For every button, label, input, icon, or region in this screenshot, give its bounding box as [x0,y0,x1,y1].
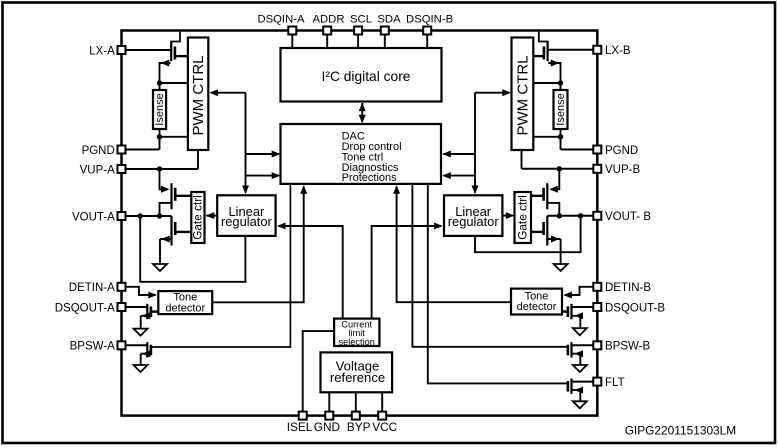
wire Q7 source from VUP-B node [551,169,559,190]
wire Q1 gate to PWM CTRL A [175,55,188,57]
wire control net B to DAC upper (arrow) [444,153,476,155]
svg-text:LX-B: LX-B [605,45,631,57]
wire VUP-B rail [522,168,594,170]
transistor Q10 (BPSW-B) [570,342,572,357]
block U9 Linear regulator (channel B) [444,195,502,236]
wire junction to PWM CTRL A [160,136,188,138]
wire PWM CTRL A bottom stub to VUP-A rail [197,150,199,169]
wire Tone detector B output to DAC (arrow) [397,186,511,302]
wire Isense-A node to PWM CTRL A [160,82,188,84]
node VUP-A junction [157,166,162,171]
pin DSQOUT-A [118,303,126,311]
wire Q4 source to ground [160,239,172,264]
wire control net B to Linear regulator B top (arrow) [474,176,476,193]
wire Q2 drain to top rail [539,32,548,42]
pin VUP-A [118,165,126,173]
svg-text:DSQIN-A: DSQIN-A [257,13,305,25]
wire Q10 source to ground [572,354,581,365]
svg-text:BPSW-A: BPSW-A [70,341,115,353]
block U8 Voltage reference [321,352,393,392]
block U7 Current limit selection [334,319,379,346]
pin PGND [593,146,601,154]
pin DSQIN-B [423,27,431,35]
svg-text:SCL: SCL [350,13,372,25]
node Isense-B bottom junction [558,134,563,139]
block U1 I2C digital core [281,48,442,102]
svg-text:VOUT- B: VOUT- B [605,211,651,223]
wire ISEL to Current limit selection [303,331,334,411]
pin VOUT-A [118,212,126,220]
wire Q6 source to ground [141,354,148,365]
svg-text:ISEL: ISEL [287,420,313,434]
block U3 PWM CTRL (channel A) [188,38,208,151]
svg-text:Gate ctrl: Gate ctrl [191,195,205,240]
block U6 Tone detector (channel A) [158,291,212,314]
wire control net A to DAC upper (arrow) [246,153,280,155]
svg-text:LX-A: LX-A [89,45,115,57]
node VUP-B junction [557,166,562,171]
wire DETIN-A to Tone detector A (arrow) [126,287,156,295]
wire Q9 source to ground [572,316,581,328]
wire VCC pin to Voltage reference [381,392,383,411]
transistor Q11 (FLT) [570,379,572,394]
svg-text:I²C digital core: I²C digital core [322,69,411,84]
svg-text:detector: detector [517,301,557,313]
svg-text:DSQOUT-A: DSQOUT-A [55,302,115,314]
wire Q2 source to Isense B node [548,63,560,83]
wire VOUT-A feedback to Linear regulator A [140,216,245,282]
wire I2C core to DAC (bidirectional) [361,103,363,122]
svg-text:PWM CTRL: PWM CTRL [515,56,532,136]
block Isense (channel B) [554,90,568,129]
wire FLT pin to Q11 [572,381,594,383]
wire control net B vertical [474,93,476,176]
block Gate ctrl (channel A) [191,192,204,243]
svg-text:FLT: FLT [605,377,625,389]
wire Isense A bottom to junction [159,129,161,137]
transistor Q5 (DSQOUT-A) [146,304,148,319]
wire Linear regulator B to Gate ctrl B (arrow) [502,215,513,217]
wire Q4 gate to Gate ctrl A [175,231,191,233]
wire Linear regulator A to Gate ctrl A (arrow) [206,215,217,217]
transistor Q9 (DSQOUT-B) [570,304,572,319]
wire Q3 drain to VOUT-A node [160,203,172,216]
wire Q8 source to ground [547,239,560,264]
svg-text:regulator: regulator [221,214,273,229]
svg-text:VUP-A: VUP-A [80,164,115,176]
IC chip outline [122,31,598,416]
svg-text:regulator: regulator [448,214,500,229]
block U5 Linear regulator (channel A) [217,195,275,236]
wire BPSW-B pin to Q10 [572,344,594,346]
wire Q5 source to ground [141,316,148,329]
svg-text:PWM CTRL: PWM CTRL [190,56,207,136]
wire junction to PWM CTRL B [533,136,560,138]
wire Q3 gate to Gate ctrl A [175,195,191,197]
wire SCL stub to I2C core [357,34,359,48]
wire VOUT-B pin rail [547,215,593,217]
svg-text:reference: reference [330,370,385,385]
svg-text:GIPG2201151303LM: GIPG2201151303LM [625,424,737,438]
svg-text:detector: detector [165,302,205,314]
svg-text:DETIN-A: DETIN-A [69,282,115,294]
pin VOUT- B [593,212,601,220]
pin VUP-B [593,165,601,173]
svg-text:Isense: Isense [154,93,166,125]
wire PGND-B pin [561,149,594,151]
block Isense (channel A) [153,90,166,129]
block U10 Tone detector (channel B) [511,289,562,315]
pin LX-B [593,46,601,54]
svg-text:PGND: PGND [82,145,115,157]
node VOUT-A drain junction [157,213,162,218]
wire Q5 gate to Tone detector A [151,310,158,312]
svg-text:ADDR: ADDR [312,13,344,25]
block U4 PWM CTRL (channel B) [512,38,534,151]
pin DSQIN-A [288,27,296,35]
wire Q9 gate to Tone detector B [562,310,568,312]
wire Tone detector A output to DAC (arrow) [212,186,304,302]
pin DETIN-B [593,283,601,291]
pin FLT [593,378,601,386]
wire GND pin to Voltage reference [328,392,330,411]
block Gate ctrl (channel B) [515,192,532,243]
wire PWM CTRL B bottom stub to VUP-B rail [521,150,523,169]
wire Isense-B node to PWM CTRL B [533,82,560,84]
pin BYP [352,412,360,420]
wire junction to PGND B [560,137,562,150]
svg-text:BYP: BYP [347,420,371,434]
ground (DSQOUT-B) [573,328,587,335]
wire Q11 source to ground [572,390,581,401]
transistor Q7 (B regulator pass upper) [546,183,548,209]
pin SCL [354,27,362,35]
ground (DSQOUT-A) [134,329,148,336]
node VOUT-B drain junction [557,213,562,218]
wire DSQOUT-B pin to Q9 [572,306,594,308]
svg-text:VOUT-A: VOUT-A [72,211,115,223]
wire Q8 gate to Gate ctrl B [531,231,544,233]
wire Q7 gate to Gate ctrl B [531,195,544,197]
ground (B output stage) [554,264,568,271]
pin VCC [378,412,386,420]
wire control net A to DAC lower (arrow) [246,175,280,177]
transistor Q4 (A regulator pass lower) [170,216,172,246]
svg-text:Gate ctrl: Gate ctrl [515,195,529,240]
wire SDA stub to I2C core [384,34,386,48]
wire Q2 gate to PWM CTRL B [533,55,544,57]
svg-text:SDA: SDA [377,13,401,25]
svg-text:DSQOUT-B: DSQOUT-B [605,302,665,314]
block U2 DAC / Drop control / Tone ctrl / Diagnostics / Protections [281,124,442,184]
pin ISEL [299,412,307,420]
ground (BPSW-A) [134,365,148,372]
svg-text:selection: selection [339,337,375,347]
wire ADDR stub to I2C core [326,34,328,48]
pin BPSW-B [593,341,601,349]
wire control net B to PWM CTRL B (arrow) [475,92,510,94]
ground (BPSW-B) [573,365,587,372]
svg-text:BPSW-B: BPSW-B [605,341,650,353]
svg-text:DSQIN-B: DSQIN-B [406,13,453,25]
wire DAC to Q10 gate (BPSW-B) [412,184,568,347]
wire DETIN-B to Tone detector B (arrow) [565,287,594,295]
wire Q1 drain to top rail [171,32,180,42]
pin GND [325,412,333,420]
wire DAC to Q11 gate (FLT) [428,184,568,384]
ground (FLT) [573,401,587,408]
wire LX-A to Q1 [126,49,172,51]
svg-text:GND: GND [314,420,340,434]
transistor Q3 (A regulator pass upper) [170,183,172,209]
wire Q6 gate from DAC [151,184,291,347]
node Isense-B top junction [558,80,563,85]
wire junction to PGND [159,137,161,150]
pin LX-A [118,46,126,54]
wire VOUT-B feedback to Linear regulator B [475,216,581,252]
transistor Q8 (B regulator pass lower) [546,216,548,246]
wire BPSW-A pin to Q6 [126,344,148,346]
wire Q1 source to Isense A node [160,63,171,83]
pin DSQOUT-B [593,303,601,311]
transistor Q6 (BPSW-A) [146,342,148,357]
wire Isense B bottom to junction [560,129,562,137]
pin ADDR [323,27,331,35]
svg-text:VUP-B: VUP-B [605,164,640,176]
wire DSQIN-B stub to I2C core [426,34,428,48]
wire DSQIN-A stub to I2C core [291,34,293,48]
wire BYP pin to Voltage reference [355,392,357,411]
node Isense-A top junction [157,80,162,85]
node VOUT-A feedback junction [138,213,143,218]
pin SDA [381,27,389,35]
wire control net B to DAC lower (arrow) [444,175,476,177]
svg-text:Isense: Isense [555,93,567,125]
pin PGND [118,146,126,154]
wire PGND-A pin [126,149,160,151]
wire Q3 source from VUP-A node [160,169,168,189]
wire VUP-A rail [126,168,199,170]
wire Current limit selection to Linear regulator A (arrow) [278,226,342,319]
svg-text:DETIN-B: DETIN-B [605,282,651,294]
node Isense-A bottom junction [157,134,162,139]
node VOUT-B feedback junction [578,213,583,218]
svg-text:VCC: VCC [372,420,397,434]
transistor Q1 (A high-side switch) [170,41,172,61]
ground (A output stage) [153,264,167,271]
wire control net A vertical [245,93,247,176]
wire LX-B to Q2 [548,49,594,51]
pin DETIN-A [118,283,126,291]
wire VOUT-A pin rail [126,215,172,217]
wire control net A to Linear regulator A top (arrow) [245,176,247,193]
wire DSQOUT-A pin to Q5 [126,306,148,308]
transistor Q2 (B high-side switch) [546,41,548,61]
wire Current limit selection to Linear regulator B (arrow) [372,226,442,319]
wire control net A to PWM CTRL A (arrow) [211,92,246,94]
wire Q7 drain to VOUT-B node [547,203,559,216]
wire node to Isense A [159,83,161,90]
svg-text:PGND: PGND [605,145,638,157]
wire node to Isense B [560,83,562,90]
svg-text:Protections: Protections [342,172,398,184]
pin BPSW-A [118,341,126,349]
